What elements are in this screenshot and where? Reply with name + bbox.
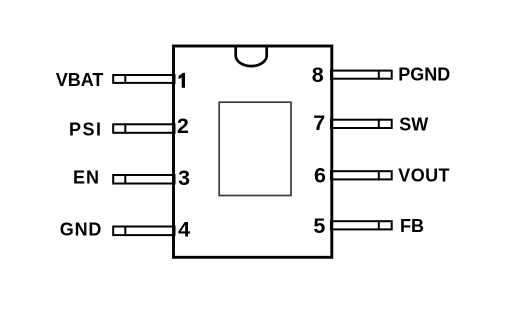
pin 1 lead: [113, 74, 174, 84]
svg-text:SW: SW: [399, 114, 428, 134]
svg-text:5: 5: [313, 214, 325, 238]
svg-text:GND: GND: [60, 220, 102, 240]
net label VOUT (pin 6): [398, 166, 450, 186]
svg-text:EN: EN: [73, 168, 100, 188]
svg-text:VOUT: VOUT: [398, 166, 450, 186]
net label GND (pin 4): [60, 220, 102, 240]
exposed pad (inner rectangle): [219, 102, 291, 195]
net label PSI (pin 2): [69, 120, 103, 140]
pin number 6: [314, 163, 326, 187]
svg-text:3: 3: [178, 166, 190, 190]
svg-text:FB: FB: [400, 216, 424, 236]
pin number 2: [177, 114, 189, 138]
pin number 8: [312, 63, 324, 87]
pin number 5: [313, 214, 325, 238]
net label EN (pin 3): [73, 168, 100, 188]
svg-text:8: 8: [312, 63, 324, 87]
net label PGND (pin 8): [398, 64, 450, 84]
svg-text:VBAT: VBAT: [56, 70, 104, 90]
svg-text:PGND: PGND: [398, 64, 450, 84]
pin 3 lead: [113, 174, 174, 185]
pin number 7: [313, 111, 325, 135]
pin number 1: [179, 73, 185, 88]
net label SW (pin 7): [399, 114, 428, 134]
svg-text:PSI: PSI: [69, 120, 103, 140]
pin 8 lead: [331, 70, 392, 80]
pin 2 lead: [113, 123, 174, 134]
svg-text:2: 2: [177, 114, 189, 138]
pin-1 orientation notch: [236, 47, 267, 66]
net label FB (pin 5): [400, 216, 424, 236]
pin 7 lead: [331, 119, 392, 129]
net label VBAT (pin 1): [56, 70, 104, 90]
pin 6 lead: [331, 170, 392, 180]
pin number 4: [178, 217, 190, 241]
pin number 3: [178, 166, 190, 190]
svg-text:7: 7: [313, 111, 325, 135]
svg-text:4: 4: [178, 217, 190, 241]
svg-text:6: 6: [314, 163, 326, 187]
IC body U1: [174, 46, 332, 257]
pin 5 lead: [331, 220, 392, 230]
pin 4 lead: [113, 226, 174, 237]
